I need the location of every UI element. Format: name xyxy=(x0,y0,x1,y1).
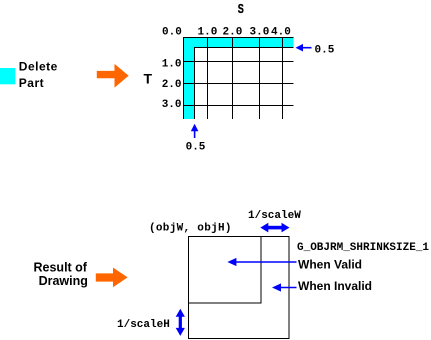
svg-text:T: T xyxy=(144,70,153,86)
grid vertical line x=1.0 xyxy=(207,37,209,119)
label Result of Drawing xyxy=(34,260,88,288)
svg-text:0.0: 0.0 xyxy=(162,27,182,39)
svg-text:1.0: 1.0 xyxy=(198,27,218,39)
grid vertical line x=0.0 xyxy=(183,37,185,119)
svg-text:When Invalid: When Invalid xyxy=(298,279,372,293)
orange arrow top xyxy=(97,64,129,88)
orange arrow bottom xyxy=(96,268,128,288)
svg-text:2.0: 2.0 xyxy=(223,27,243,39)
grid vertical line x=4.0 xyxy=(282,37,284,119)
grid vertical line x=3.0 xyxy=(259,37,261,119)
grid horizontal line y=1.0 xyxy=(183,61,294,63)
grid vertical line x=2.0 xyxy=(232,37,234,119)
svg-text:Result of: Result of xyxy=(34,260,88,274)
svg-text:2.0: 2.0 xyxy=(162,79,182,91)
svg-text:When Valid: When Valid xyxy=(298,257,362,271)
inner rect (shrunk object) xyxy=(189,237,262,304)
cyan delete band (top row) xyxy=(183,37,294,48)
svg-text:0.5: 0.5 xyxy=(315,44,335,56)
svg-text:Part: Part xyxy=(19,76,44,90)
svg-text:3.0: 3.0 xyxy=(250,27,270,39)
legend cyan swatch xyxy=(0,68,15,84)
svg-text:1/scaleW: 1/scaleW xyxy=(248,210,301,222)
svg-text:Drawing: Drawing xyxy=(39,274,88,288)
grid vertical line x=0.5 xyxy=(194,47,196,119)
blue arrow when valid xyxy=(227,258,296,266)
grid horizontal line y=3.0 xyxy=(183,105,294,107)
svg-text:4.0: 4.0 xyxy=(271,27,291,39)
grid horizontal line y=0.0 xyxy=(183,37,294,39)
svg-text:S: S xyxy=(238,3,244,17)
blue arrow when invalid xyxy=(272,283,297,291)
svg-text:3.0: 3.0 xyxy=(162,99,182,111)
svg-text:1/scaleH: 1/scaleH xyxy=(117,319,170,331)
grid horizontal line y=2.0 xyxy=(183,83,294,85)
svg-text:1.0: 1.0 xyxy=(162,58,182,70)
blue pointer arrow right 0.5 xyxy=(296,44,312,52)
svg-text:Delete: Delete xyxy=(19,59,58,73)
legend text Delete Part xyxy=(19,59,58,90)
blue double arrow vertical 1/scaleH xyxy=(176,309,185,336)
svg-text:G_OBJRM_SHRINKSIZE_1: G_OBJRM_SHRINKSIZE_1 xyxy=(297,242,429,254)
outer square (object extents) xyxy=(189,237,290,339)
cyan delete band (left column) xyxy=(183,37,195,119)
svg-text:0.5: 0.5 xyxy=(186,142,206,154)
svg-text:(objW, objH): (objW, objH) xyxy=(149,223,232,235)
grid horizontal line y=0.5 xyxy=(194,47,294,49)
blue pointer arrow up 0.5 xyxy=(191,124,199,138)
blue double arrow horizontal 1/scaleW xyxy=(260,223,289,233)
